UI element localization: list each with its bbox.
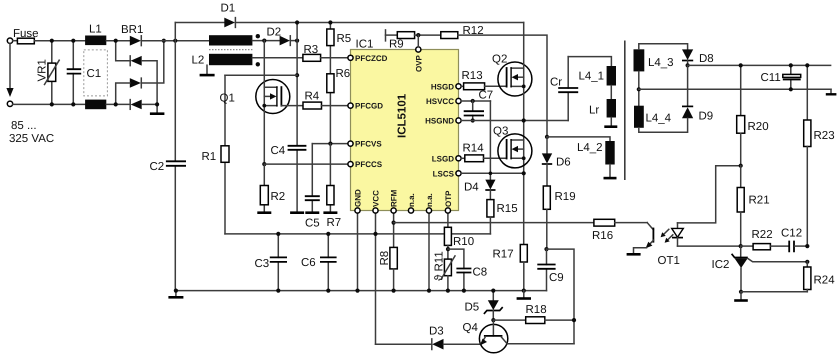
wire R14 to Q3 gate [484,157,506,159]
svg-text:R24: R24 [814,275,836,287]
svg-text:L4_4: L4_4 [646,113,672,125]
node boost output [295,39,299,43]
transistor Q1 [220,41,290,165]
pin HSGD [456,84,461,89]
common mode choke L1 [84,24,108,110]
wire RFM pin to R8 [393,211,395,248]
svg-text:C8: C8 [473,267,488,279]
wire R1 branch horizontal [225,74,297,76]
node VR1 bottom [50,102,54,106]
svg-text:LSGD: LSGD [432,154,454,163]
wire C2 vertical [174,23,176,291]
resistor R4 [303,91,322,110]
capacitor C11 [761,65,801,89]
ground rail left symbol [175,291,177,297]
wire L4_3 top to D8 [639,44,688,50]
transformer core [624,41,626,181]
divider chain R5 R6 vertical wire [329,23,331,144]
wire R3 to PFCZCD [321,57,348,59]
svg-text:OTP: OTP [444,190,453,207]
varistor VR1 [37,41,60,105]
IC1 ICL5101 body [351,39,459,211]
node na2 rail [427,289,431,293]
svg-text:R4: R4 [305,91,320,103]
node center tap [637,87,641,91]
svg-text:ϑ R11: ϑ R11 [434,251,446,281]
bridge rectifier BR1 [114,24,166,114]
pin LSGD [456,156,461,161]
wire HSGND to Cr [461,120,568,122]
wire bridge to L2 [141,40,209,42]
node IC2 cathode [739,244,743,248]
svg-text:HSGND: HSGND [425,117,454,126]
resistor R8 [379,247,397,290]
optocoupler OT1 [627,223,684,267]
node R10 bottom [446,247,450,251]
svg-text:325 VAC: 325 VAC [9,133,54,145]
diode BR1 Da [130,36,141,46]
svg-text:R15: R15 [497,203,518,215]
node D4 LSCS [489,172,493,176]
node DC- [155,102,159,106]
svg-text:C6: C6 [301,257,316,269]
terminal input bottom [7,101,12,106]
svg-text:L1: L1 [89,24,102,36]
wire LSGD to R14 [461,157,465,159]
resistor R12 [441,25,484,39]
diode D9 [682,65,713,122]
wire HSVCC [461,100,490,102]
node C3 top [276,232,280,236]
wire top rail to D1 [175,22,224,24]
resistor R2 [260,164,285,212]
node D6 branch [545,135,549,139]
resistor R22 [741,229,773,250]
ground secondary [830,89,832,93]
bootstrap diode D4 line [489,101,491,180]
diode D3 [429,326,444,350]
svg-text:LSCS: LSCS [433,169,455,178]
node C9 top [544,247,548,251]
wire Q1 gate to R4 [281,105,303,107]
ground L2 aux [206,65,208,74]
svg-text:D1: D1 [221,3,236,15]
diode BR1 Db [131,56,142,66]
resistor R16 [592,219,615,242]
pin PFCGD [348,103,353,108]
node C7 bottom [471,118,475,122]
svg-text:R14: R14 [463,143,485,155]
svg-text:Q1: Q1 [220,93,235,105]
svg-text:R1: R1 [202,151,217,163]
capacitor C3 [255,234,288,291]
node D8 output [686,63,690,67]
wire IC2 ref [748,258,808,261]
wire Q4 collector [507,343,574,345]
polarity dot L2 bottom [256,62,260,66]
wire L1 to bridge bottom [106,103,129,105]
node DC+ [162,39,166,43]
capacitor C4 [271,145,307,157]
inductor L4_2 [577,141,615,165]
node R20 top [739,63,743,67]
svg-text:R23: R23 [814,130,835,142]
diode D1 [221,3,236,28]
transistor Q3 [493,126,532,168]
wire L2 aux to R3 [252,57,303,59]
resistor R15 [487,190,518,234]
svg-text:D8: D8 [699,53,714,65]
input polarity arrow [9,43,11,88]
node R1 branch [295,73,299,77]
node IC2 anode [739,290,743,294]
resistor R13 [462,70,485,90]
resistor R24 [804,262,836,292]
node Q1 drain [262,39,266,43]
wire D3 to Q4 base [444,343,482,345]
wire branch to L4_2 [547,137,610,141]
svg-text:C9: C9 [549,272,564,284]
wire HSGD to R13 [461,85,464,87]
svg-text:R22: R22 [752,229,773,241]
wire center tap [638,71,640,105]
output rail positive [688,64,831,66]
svg-text:VCC: VCC [372,190,381,207]
inductor Lr [589,99,616,118]
wire RFM feedback long [394,222,594,224]
wire R9 to R12 [415,34,441,36]
ground rail bottom [176,290,547,292]
node RFM [392,221,396,225]
wire IC2 anode to R24 [741,291,807,293]
pin OTP [445,208,450,213]
resistor R14 [463,143,485,162]
node R8 rail [392,289,396,293]
svg-text:D6: D6 [556,157,571,169]
node C11 top [789,63,793,67]
diode D6 [542,137,571,169]
svg-text:OT1: OT1 [658,255,680,267]
wire GND pin down [357,211,359,291]
pin na2 [426,208,431,213]
svg-text:R7: R7 [327,217,342,229]
node C11 bottom [789,87,793,91]
svg-text:D9: D9 [699,111,714,123]
wire VCC pin down [375,211,377,345]
node C6 top [326,232,330,236]
svg-text:D4: D4 [464,182,479,194]
svg-text:n.a.: n.a. [407,193,416,207]
ground C4 [290,211,304,214]
svg-text:HSGD: HSGD [431,82,454,91]
terminal input top [7,38,12,43]
capacitor C2 [150,161,187,173]
wire R4 to PFCGD [322,105,348,107]
node rail C2 [174,289,178,293]
svg-text:C12: C12 [781,228,802,240]
diode zener D5 [465,291,503,321]
svg-text:R16: R16 [592,230,613,242]
ground R7 [323,211,337,214]
capacitor C6 [301,234,337,291]
svg-text:R9: R9 [389,39,404,51]
svg-text:Fuse: Fuse [13,28,39,40]
svg-text:C7: C7 [479,90,494,102]
capacitor C5 [305,144,320,230]
svg-text:R10: R10 [453,236,474,248]
svg-text:85 ...: 85 ... [11,120,37,132]
wire VCC to D3 [376,343,432,345]
ground R2 [257,211,271,214]
svg-text:ICL5101: ICL5101 [397,93,409,138]
wire OT1 LED anode supply [678,166,741,223]
node VCC bus [373,232,377,236]
svg-text:R17: R17 [493,249,514,261]
winding L4_4 [634,106,672,128]
wire OT1 LED cathode to IC2 [678,245,741,247]
wire D2 to boost node [290,40,297,42]
node LSCS source [522,171,526,175]
svg-text:L4_2: L4_2 [577,142,603,154]
shunt regulator IC2 [712,246,748,292]
svg-text:RFM: RFM [390,189,399,207]
svg-text:PFCCS: PFCCS [355,160,383,169]
wire R16 to OT1 [615,222,648,224]
pin GND [355,208,360,213]
node C7 top [471,99,475,103]
node PFCVS divider [328,142,332,146]
wire L4_1 to Lr [610,86,612,100]
diode BR1 Dd [131,100,142,110]
svg-text:R20: R20 [748,121,769,133]
capacitor C12 [770,228,807,253]
node C8 rail [462,289,466,293]
svg-text:R19: R19 [555,191,576,203]
inductor L4_1 [579,66,617,86]
capacitor C8 [448,249,487,291]
svg-text:Q2: Q2 [492,54,507,66]
node AC2 [114,102,118,106]
wire OVP pin up [417,35,419,47]
node half bridge midpoint [522,118,526,122]
wire boost node vertical [296,23,298,212]
node VR1 top [50,39,54,43]
node AC1 [114,39,118,43]
svg-text:R21: R21 [749,195,770,207]
diode D2 [267,27,291,46]
node GND rail [355,289,359,293]
wire top rail D1 to half bridge [235,22,523,24]
resistor R9 with test bar [386,30,415,51]
transistor Q4 [463,320,508,353]
polarity dot L2 top [256,34,260,38]
wire L4_4 to D9 [639,118,688,132]
node ref rail [805,260,809,264]
svg-text:L4_3: L4_3 [648,57,674,69]
svg-text:R3: R3 [304,44,319,56]
fuse F1 [13,28,39,44]
resistor R18 [493,304,574,324]
wire fuse to VR1/C1/L1 [34,40,85,42]
wire L1 to bridge top [106,40,130,42]
resistor R17 [493,245,528,291]
node R18 right [572,318,576,322]
svg-text:L4_1: L4_1 [579,71,605,83]
resistor R23 [804,65,835,246]
node Q1 source [262,162,266,166]
resistor R7 [327,144,342,229]
resistor R3 [303,44,321,61]
wire na2 pin down [428,211,430,291]
node C1 bottom [71,102,75,106]
node R20 R21 [739,164,743,168]
node R23 top [805,63,809,67]
svg-text:Q4: Q4 [463,322,479,334]
capacitor C7 [464,90,494,121]
resistor R10 [444,227,474,259]
thermistor R11 [434,251,456,290]
svg-text:D5: D5 [465,302,480,314]
pin PFCCS [348,162,353,167]
wire D8 to output rail [687,61,689,66]
bridge internal wires [116,41,131,61]
pin PFCVS [348,141,353,146]
node R17 rail [522,289,526,293]
wire R13 to Q2 gate [485,85,506,87]
node D5 rail [491,289,495,293]
svg-text:R5: R5 [337,33,352,45]
node C3 bottom [276,289,280,293]
node OVP [416,33,420,37]
wire bottom input [13,103,85,105]
wire C9 node to Q4 collector branch [547,249,575,344]
svg-text:L2: L2 [192,55,205,67]
resistor R5 [327,29,351,46]
svg-text:C11: C11 [761,72,781,84]
svg-text:BR1: BR1 [121,24,143,36]
pin PFCZCD [348,55,353,60]
svg-text:R6: R6 [336,68,351,80]
pin na1 [408,208,413,213]
node D5 R18 Q4 [491,318,495,322]
svg-text:PFCZCD: PFCZCD [355,54,388,63]
node R11 rail [446,289,450,293]
node R5 top rail [328,20,332,24]
ground L4_2 [609,165,611,178]
resistor R19 [543,164,575,249]
resistor R20 [737,65,769,165]
svg-text:D2: D2 [267,27,282,39]
ground IC2 [740,292,742,300]
wire Cr to L4_1 [568,57,611,66]
svg-text:R13: R13 [462,70,483,82]
svg-text:IC1: IC1 [356,39,374,51]
node boost top rail [295,20,299,24]
svg-text:Q3: Q3 [493,126,508,138]
svg-text:C4: C4 [271,145,286,157]
svg-text:GND: GND [354,189,363,207]
diode D4 [464,180,496,194]
boost choke L2 [192,34,261,67]
svg-text:D3: D3 [429,326,444,338]
svg-text:PFCGD: PFCGD [355,102,383,111]
resistor R21 [737,166,769,246]
svg-text:IC2: IC2 [712,259,730,271]
ground R17 [523,291,525,298]
winding L4_3 [634,49,674,71]
resistor R1 [202,75,230,234]
pin RFM [391,208,396,213]
pin LSCS [456,171,461,176]
svg-text:C1: C1 [87,68,102,80]
capacitor C9 [537,249,563,291]
transistor Q2 [492,23,532,245]
wire OTP pin to R10 [447,211,449,228]
capacitor Cr [550,57,578,121]
diode BR1 Dc [130,78,141,88]
svg-text:R18: R18 [526,304,547,316]
output return rail [639,88,831,90]
svg-text:R8: R8 [379,251,391,266]
wire PFCVS [312,143,348,145]
resistor R6 [327,68,350,93]
ground Lr [610,118,612,126]
svg-text:VR1: VR1 [37,59,49,81]
node C1 top [71,39,75,43]
svg-text:n.a.: n.a. [425,193,434,207]
wire PFCCS [264,163,348,165]
svg-text:HSVCC: HSVCC [426,97,454,106]
ground bridge negative [156,104,158,112]
node C6 bottom [326,289,330,293]
wire LSCS [461,172,524,174]
svg-text:C5: C5 [305,218,320,230]
wire L2 top to D2 [252,40,279,42]
svg-text:Lr: Lr [589,105,599,117]
capacitor C1 [67,41,102,105]
pin OVP [416,47,421,52]
ground C5 [305,211,319,214]
svg-text:R2: R2 [271,191,286,203]
svg-text:OVP: OVP [414,54,423,72]
node C2 branch [173,39,177,43]
pin HSVCC [456,98,461,103]
svg-text:C2: C2 [150,161,165,173]
wire R12 to D6 branch [458,35,547,137]
diode D8 [682,49,714,65]
pin VCC [373,208,378,213]
VCC bus wire [225,233,490,235]
svg-text:Cr: Cr [550,77,562,89]
pin HSGND [456,118,461,123]
svg-text:C3: C3 [255,258,270,270]
svg-text:PFCVS: PFCVS [355,140,382,149]
node C12 rail [805,244,809,248]
